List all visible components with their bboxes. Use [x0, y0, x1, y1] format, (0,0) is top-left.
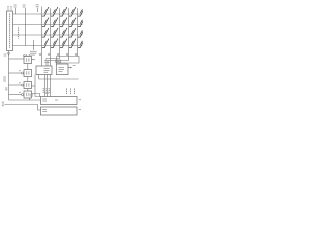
cell R4C3	[60, 39, 67, 48]
word line label WL1	[14, 5, 17, 7]
left address bus	[8, 51, 10, 101]
box A input circle	[23, 55, 25, 57]
data out arrow	[68, 67, 71, 69]
box C text	[26, 83, 28, 87]
io bus long line	[39, 78, 79, 80]
box C label	[19, 82, 21, 84]
box A text	[26, 58, 28, 62]
word line group vertical label	[18, 28, 20, 39]
array label leader	[37, 8, 39, 12]
io wire 2	[47, 75, 49, 97]
box D text	[26, 93, 28, 97]
leader from label up	[33, 40, 35, 50]
bus arrow tick	[7, 52, 9, 55]
cell R3C4	[69, 28, 76, 37]
cell R4C4	[69, 39, 76, 48]
R1 text	[42, 99, 58, 101]
B1 text	[44, 69, 50, 73]
box D output stub	[32, 94, 40, 97]
box A right stub	[32, 59, 36, 61]
arrowhead	[70, 67, 72, 69]
box B text	[26, 71, 28, 75]
io wire 1	[44, 75, 46, 97]
R1 right label	[79, 99, 81, 101]
array label	[36, 5, 39, 7]
cell R4C5	[78, 39, 85, 48]
R2 text	[42, 110, 47, 112]
cell R3C3	[60, 28, 67, 37]
column decoder box R1	[41, 97, 78, 105]
label above R1 left	[30, 94, 33, 96]
mid vertical wire	[35, 75, 41, 97]
box A top stubs	[26, 54, 28, 57]
cell R3C2	[51, 28, 58, 37]
cell R2C5	[78, 18, 85, 27]
clock gen box A	[24, 57, 32, 64]
cell R1C4	[69, 7, 76, 16]
cell R1C3	[60, 7, 67, 16]
wire into R1	[9, 99, 41, 101]
box chain connector C-D	[27, 89, 29, 92]
cell R2C1	[42, 18, 49, 27]
small label box above B2	[56, 60, 61, 63]
B1 bottom-left wire	[38, 75, 40, 80]
row decoder vertical text	[9, 14, 11, 49]
cell R4C1	[42, 39, 49, 48]
box D input circle	[22, 94, 24, 96]
cell R2C3	[60, 18, 67, 27]
cell R1C5	[78, 7, 85, 16]
bit line BL1	[41, 7, 43, 67]
bit line BL4	[48, 8, 69, 66]
cell R2C4	[69, 18, 76, 27]
box chain connector A-B	[27, 64, 29, 70]
io wire 3	[50, 75, 52, 97]
clock gen box B	[24, 70, 32, 77]
box B label	[19, 70, 21, 72]
sense amp box B1	[36, 66, 52, 75]
cell R1C1	[42, 7, 49, 16]
bus label 2	[3, 77, 6, 81]
word line label WL4	[23, 5, 26, 7]
labels above decoder	[7, 7, 12, 11]
word line 4	[13, 45, 83, 47]
R2 right label	[79, 109, 81, 111]
arrow label	[73, 65, 76, 67]
clock label block text	[30, 51, 37, 55]
box C output stub	[32, 85, 36, 87]
io buffer box B2	[56, 64, 68, 75]
box D down wire	[29, 98, 31, 100]
word line 3	[13, 34, 83, 36]
address buffer box R2	[41, 107, 78, 115]
box D label	[19, 91, 21, 93]
clock gen box D	[24, 91, 32, 98]
bottom address wire	[5, 105, 41, 111]
wire bus to box D	[9, 94, 22, 96]
label above R1 middle	[45, 92, 50, 94]
leader to word line 1	[15, 8, 17, 14]
box C input circle	[22, 84, 24, 86]
bus label 1	[4, 54, 7, 56]
box B input circle	[22, 72, 24, 74]
cell R3C5	[78, 28, 85, 37]
cell R1C2	[51, 7, 58, 16]
label above B1	[44, 61, 50, 63]
io wire labels	[43, 88, 49, 94]
cell R2C2	[51, 18, 58, 27]
clock gen box C	[24, 82, 32, 89]
bus label 3	[5, 88, 7, 90]
word line 2	[13, 24, 83, 26]
bit line labels	[39, 53, 76, 56]
leader to word line 4	[25, 8, 27, 46]
row decoder U1	[7, 11, 13, 51]
bus collect line top	[57, 57, 80, 65]
bit line BL2	[50, 8, 52, 66]
bit line BL5	[77, 8, 79, 56]
word line 1	[13, 13, 83, 15]
box chain connector B-C	[27, 77, 29, 82]
wire bus to box A	[9, 58, 25, 60]
wire bus to box C	[9, 84, 22, 86]
B2 text	[58, 68, 64, 72]
cell R3C1	[42, 28, 49, 37]
bit line BL3	[46, 8, 60, 66]
wire bus to box B	[9, 72, 22, 74]
cell R4C2	[51, 39, 58, 48]
bottom wire label	[2, 102, 4, 106]
io bus labels	[67, 89, 75, 95]
